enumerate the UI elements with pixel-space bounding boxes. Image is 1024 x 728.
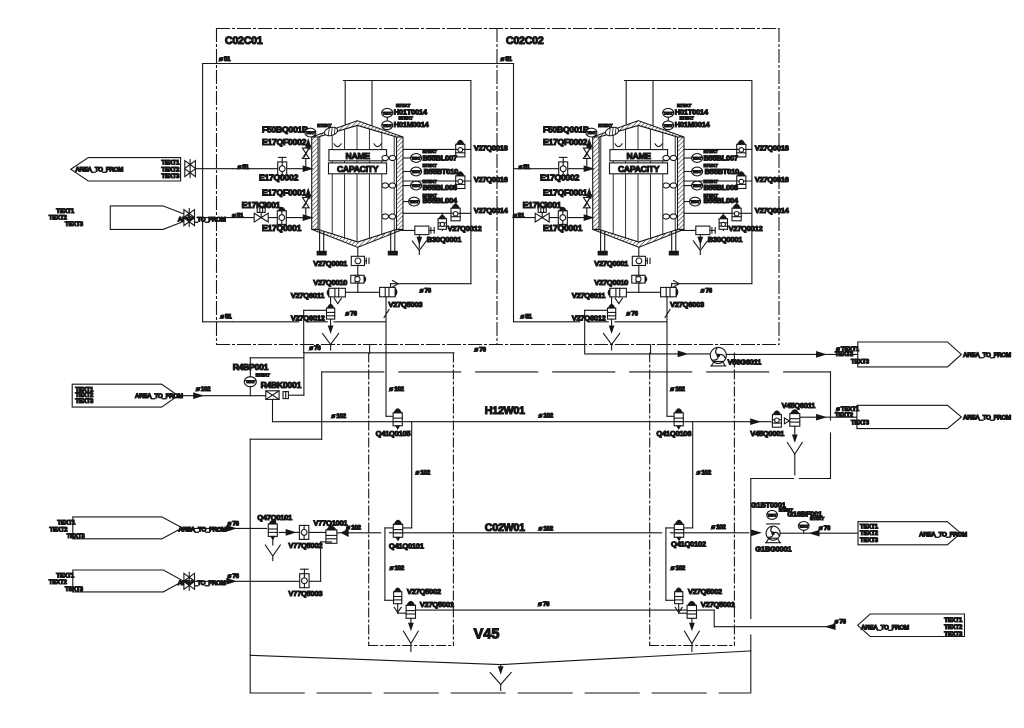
vessel wall flange pairs bbox=[382, 155, 389, 160]
vessel wall flange pairs bbox=[663, 155, 670, 160]
vent return bottom line unit 1 bbox=[391, 283, 471, 285]
vessel shell left wall (hatched) bbox=[593, 137, 599, 229]
wire V77Q5002 to V77Q1001 bbox=[309, 531, 326, 533]
svg-text:ø 51: ø 51 bbox=[513, 212, 525, 219]
wire V45Q0001 inlet arrow bbox=[751, 419, 760, 424]
nozzle line to valve V27Q0014 unit 1 bbox=[403, 212, 471, 214]
valve V27Q0014 unit 2 bbox=[732, 208, 741, 221]
feed riser right (to unit 2) bbox=[513, 64, 515, 322]
instrument H01M0014 unit 2 bbox=[663, 121, 674, 130]
central drain funnel bbox=[500, 665, 502, 672]
boundary drain stub unit 1 bbox=[369, 345, 371, 354]
svg-text:V27Q0012: V27Q0012 bbox=[729, 224, 763, 233]
svg-text:ø 102: ø 102 bbox=[539, 526, 554, 533]
wire Q47Q0101 to V77Q5002 bbox=[279, 531, 299, 533]
svg-text:TEXT3: TEXT3 bbox=[65, 586, 84, 593]
svg-text:CAPACITY: CAPACITY bbox=[337, 164, 379, 174]
instrument stem top of vessel unit 1 bbox=[386, 117, 388, 130]
svg-text:V45Q0001: V45Q0001 bbox=[750, 429, 785, 438]
valve V27Q5001 unit 2 bbox=[687, 605, 696, 618]
svg-text:ø 102: ø 102 bbox=[697, 470, 712, 477]
dn51 blowdown line unit 2 bbox=[514, 321, 580, 323]
gate valve E17K3001 unit 2 bbox=[535, 213, 542, 222]
unit1 blowdown collection line bbox=[304, 352, 454, 354]
svg-text:TEXT: TEXT bbox=[410, 200, 420, 204]
elbow into Q41 valve unit 1 bbox=[386, 415, 393, 417]
svg-text:V27Q5003: V27Q5003 bbox=[388, 300, 422, 309]
vessel shell right wall (hatched) bbox=[678, 137, 685, 229]
svg-text:V45: V45 bbox=[474, 627, 500, 643]
instrument H01M0014 unit 1 bbox=[382, 121, 393, 130]
svg-text:TEXT: TEXT bbox=[664, 124, 674, 128]
V27Q5001 drain funnel unit 1 bbox=[410, 618, 412, 624]
svg-text:ø 76: ø 76 bbox=[701, 288, 713, 295]
H12W01 header bbox=[273, 421, 772, 423]
drain line to B30Q0001 unit 1 bbox=[399, 229, 415, 231]
jacket return bottom jog bbox=[751, 478, 794, 480]
svg-text:TEXT2: TEXT2 bbox=[49, 526, 68, 533]
svg-text:C02C01: C02C01 bbox=[225, 35, 263, 47]
svg-text:E17Q0002: E17Q0002 bbox=[259, 173, 299, 183]
valve V27Q5003 unit 2 bbox=[661, 287, 677, 296]
down branch to C02W01 unit 1 bbox=[411, 422, 413, 528]
svg-text:ø 102: ø 102 bbox=[390, 565, 405, 572]
svg-text:F50BQ001B: F50BQ001B bbox=[262, 124, 308, 134]
svg-text:TEXT2: TEXT2 bbox=[835, 351, 854, 358]
unit1 blowdown stub bbox=[203, 321, 233, 323]
svg-text:ø 102: ø 102 bbox=[416, 470, 431, 477]
C02W01 header mid bbox=[389, 532, 661, 534]
vessel NAME plate bbox=[329, 150, 387, 161]
vessel bottom outlet line unit 1 bbox=[357, 247, 359, 292]
V27Q5003 downline unit 2 bbox=[666, 297, 668, 417]
svg-text:V27Q5001: V27Q5001 bbox=[420, 600, 455, 609]
svg-text:ø 102: ø 102 bbox=[670, 386, 685, 393]
vessel bottom cone radial lines bbox=[330, 233, 358, 242]
wire V45 outlet to flag bbox=[800, 416, 857, 418]
valve V45Q0001 bbox=[772, 415, 781, 428]
V27Q5003 riser to vent line unit 1 bbox=[390, 284, 392, 288]
svg-text:V27Q6012: V27Q6012 bbox=[291, 313, 325, 322]
pump G1BG0001 bbox=[766, 526, 780, 540]
svg-text:H01M0014: H01M0014 bbox=[675, 120, 711, 129]
svg-text:B55BL004: B55BL004 bbox=[704, 196, 739, 205]
valve V77Q5002 bbox=[299, 525, 308, 539]
vessel roof radial lines bbox=[320, 125, 358, 136]
svg-text:B30Q0001: B30Q0001 bbox=[427, 235, 462, 244]
valve V27Q0010 unit 2 bbox=[632, 275, 645, 283]
svg-text:TEXT: TEXT bbox=[412, 157, 422, 161]
svg-text:V77Q1001: V77Q1001 bbox=[313, 519, 348, 528]
svg-text:TEXT: TEXT bbox=[768, 513, 778, 517]
valve V27Q5001 unit 1 bbox=[406, 605, 415, 618]
valve V27Q0016 unit 2 bbox=[737, 176, 746, 189]
svg-text:V27Q0014: V27Q0014 bbox=[755, 206, 790, 215]
svg-text:G1BG0001: G1BG0001 bbox=[755, 545, 792, 554]
flag AREA_TO_FROM left (R4B line) bbox=[72, 384, 178, 407]
svg-text:R4BK0001: R4BK0001 bbox=[261, 380, 302, 390]
svg-text:E17Q0001: E17Q0001 bbox=[543, 223, 583, 233]
svg-text:ø 76: ø 76 bbox=[420, 288, 432, 295]
svg-text:AREA_TO_FROM: AREA_TO_FROM bbox=[178, 527, 226, 534]
svg-text:ø 51: ø 51 bbox=[220, 313, 232, 320]
svg-text:AREA_TO_FROM: AREA_TO_FROM bbox=[963, 352, 1011, 359]
svg-text:V77Q5002: V77Q5002 bbox=[288, 541, 322, 550]
V27Q6012 bypass branch unit 2 bbox=[585, 309, 608, 311]
svg-text:TEXT: TEXT bbox=[587, 131, 597, 135]
bottom dashed boundary bbox=[250, 692, 749, 694]
svg-text:V27Q6011: V27Q6011 bbox=[291, 291, 326, 300]
svg-text:E17Q0001: E17Q0001 bbox=[262, 223, 302, 233]
valve V27Q0001 unit 1 bbox=[351, 256, 364, 265]
instrument stubs B55 unit 2 bbox=[684, 157, 692, 159]
wire pump to flag E bbox=[726, 353, 858, 355]
vessel internal filter candles bbox=[600, 136, 602, 229]
svg-text:TEXT: TEXT bbox=[664, 111, 674, 115]
vessel shell left wall (hatched) bbox=[312, 137, 318, 229]
svg-text:AREA_TO_FROM: AREA_TO_FROM bbox=[75, 167, 123, 174]
svg-text:E17K3001: E17K3001 bbox=[242, 200, 281, 210]
flag AREA_TO_FROM right (C02W01 return) bbox=[858, 522, 961, 545]
svg-text:B55BL008: B55BL008 bbox=[423, 183, 457, 192]
svg-text:TEXT: TEXT bbox=[306, 131, 316, 135]
vent header pipes from vessel top unit 2 bbox=[625, 81, 627, 126]
svg-text:Q47Q0101: Q47Q0101 bbox=[257, 513, 293, 522]
vessel spray nozzle hooks bbox=[334, 144, 341, 147]
valve V27Q6012 unit 1 bbox=[330, 297, 332, 306]
funnel under B30Q0001 unit 1 bbox=[418, 235, 420, 248]
valve V45Q6011 bbox=[790, 414, 800, 427]
svg-text:V27Q5002: V27Q5002 bbox=[688, 587, 722, 596]
svg-text:V56G6011: V56G6011 bbox=[728, 358, 763, 367]
svg-text:F50BQ001B: F50BQ001B bbox=[543, 124, 589, 134]
svg-text:B55BL008: B55BL008 bbox=[704, 183, 738, 192]
vessel spray nozzle hooks bbox=[615, 144, 622, 147]
svg-text:TEXT: TEXT bbox=[383, 111, 393, 115]
vessel bottom cone radial lines bbox=[611, 233, 639, 242]
valve Q47Q0101 bbox=[268, 524, 277, 536]
interconnect line between V27Q5001 valves bbox=[416, 609, 687, 611]
svg-text:C02W01: C02W01 bbox=[485, 522, 525, 534]
gate valve E17K3001 unit 1 bbox=[254, 213, 261, 222]
wire pump outlet to flag H bbox=[780, 532, 858, 534]
unit 1 feed line 1 (DN51) bbox=[233, 168, 312, 170]
valve Q41Q0102 unit 2 bbox=[674, 524, 683, 537]
wire flag to V77Q5003 bbox=[195, 580, 300, 582]
svg-text:ø 102: ø 102 bbox=[539, 413, 554, 420]
svg-text:E17QF0001: E17QF0001 bbox=[262, 187, 307, 197]
feed riser left bbox=[202, 64, 204, 322]
pump feed drain line unit2 bbox=[585, 353, 711, 355]
svg-text:V27Q6003: V27Q6003 bbox=[670, 300, 704, 309]
svg-text:AREA_TO_FROM: AREA_TO_FROM bbox=[861, 624, 909, 631]
svg-text:ø 51: ø 51 bbox=[238, 164, 250, 171]
R4BP001 recirculation loop bbox=[249, 358, 251, 377]
funnel under Q47Q0101 bbox=[272, 536, 274, 545]
svg-text:H12W01: H12W01 bbox=[485, 405, 525, 417]
drain line to B30Q0001 unit 2 bbox=[680, 229, 696, 231]
svg-text:ø 51: ø 51 bbox=[232, 212, 244, 219]
svg-text:ø 76: ø 76 bbox=[228, 520, 240, 527]
nozzle line to valve V27Q0018 unit 2 bbox=[684, 148, 752, 150]
svg-text:Q41Q0101: Q41Q0101 bbox=[389, 542, 425, 551]
svg-text:E17Q0002: E17Q0002 bbox=[540, 173, 580, 183]
valve V77Q5003 bbox=[300, 574, 309, 588]
unit1 feed stub 1 bbox=[195, 168, 232, 170]
svg-text:ø 76: ø 76 bbox=[345, 311, 357, 318]
vent header pipes from vessel top unit 1 bbox=[344, 81, 346, 126]
svg-text:ø 102: ø 102 bbox=[671, 565, 686, 572]
valve V27Q0001 unit 2 bbox=[632, 256, 645, 265]
svg-text:TEXT: TEXT bbox=[693, 157, 703, 161]
svg-text:B55BT010: B55BT010 bbox=[705, 167, 739, 176]
svg-text:H01M0014: H01M0014 bbox=[394, 120, 430, 129]
flag AREA_TO_FROM top-left (incoming feed 1) bbox=[71, 158, 181, 181]
instrument B55BL004 unit 1 bbox=[409, 197, 420, 206]
vessel roof band (hatched) bbox=[312, 121, 403, 137]
pump G1BG0001 inlet arrow bbox=[752, 530, 761, 535]
V27Q5003 downline unit 1 bbox=[385, 297, 387, 417]
arrow between V45 valves bbox=[784, 418, 789, 424]
funnel under B30Q0001 unit 2 bbox=[699, 235, 701, 248]
heater coil symbol unit 2 bbox=[604, 126, 619, 137]
vessel roof radial lines bbox=[601, 125, 639, 136]
pump V56G6011 bbox=[710, 347, 726, 363]
valve V27Q0012 branch unit 1 bbox=[441, 213, 443, 230]
svg-text:ETEXT: ETEXT bbox=[598, 123, 612, 128]
wire R4B feed line bbox=[178, 395, 266, 397]
V27Q5003 riser to vent line unit 2 bbox=[671, 284, 673, 288]
svg-text:V27Q0014: V27Q0014 bbox=[474, 206, 509, 215]
vessel legs bbox=[319, 231, 321, 252]
relief valve E17QF0001 unit 2 bbox=[586, 208, 588, 217]
wire flag to Q47Q0101 bbox=[182, 527, 266, 529]
vessel CAPACITY plate bbox=[610, 163, 668, 174]
svg-text:CAPACITY: CAPACITY bbox=[618, 164, 660, 174]
bottom tee line unit 2 bbox=[626, 291, 660, 293]
feed crossover header top bbox=[203, 63, 514, 65]
nozzle line to valve V27Q0018 unit 1 bbox=[403, 148, 471, 150]
flag AREA_TO_FROM bottom-left 2 (V77 line) bbox=[73, 570, 183, 592]
flag AREA_TO_FROM bottom-right bbox=[858, 614, 965, 637]
wire to bottom-right flag bbox=[714, 626, 826, 628]
vent header line unit 1 bbox=[344, 80, 471, 82]
down branch to C02W01 unit 2 bbox=[692, 422, 694, 528]
svg-text:ETEXT: ETEXT bbox=[810, 516, 824, 521]
svg-text:ø 76: ø 76 bbox=[538, 601, 550, 608]
svg-text:ø 51: ø 51 bbox=[501, 56, 513, 63]
jacket return right drop bbox=[830, 372, 832, 420]
svg-text:TEXT2: TEXT2 bbox=[944, 624, 963, 631]
control valve E17Q0002 unit 1 bbox=[278, 162, 287, 176]
svg-text:V27Q0016: V27Q0016 bbox=[474, 175, 508, 184]
svg-text:NAME: NAME bbox=[346, 151, 371, 161]
instrument H01T0014 unit 1 bbox=[382, 108, 393, 117]
heater coil symbol unit 1 bbox=[323, 126, 338, 137]
svg-text:TEXT: TEXT bbox=[412, 184, 422, 188]
svg-text:Q41Q0106: Q41Q0106 bbox=[656, 429, 691, 438]
vessel shell right wall (hatched) bbox=[397, 137, 404, 229]
valve V27Q0014 unit 1 bbox=[451, 208, 460, 221]
instrument B55BL004 unit 2 bbox=[690, 197, 701, 206]
svg-text:V27Q0018: V27Q0018 bbox=[474, 144, 508, 153]
valve V77Q1001 bbox=[326, 530, 337, 543]
svg-text:TEXT: TEXT bbox=[693, 184, 703, 188]
V27Q6012 bypass branch unit 1 bbox=[304, 309, 327, 311]
equipment B30Q0001 unit 2 bbox=[696, 226, 710, 235]
control valve E17Q0001 unit 1 bbox=[277, 211, 286, 225]
svg-text:B55BT010: B55BT010 bbox=[424, 167, 458, 176]
dn51 blowdown line unit 1 bbox=[233, 321, 299, 323]
instrument stubs B55 unit 1 bbox=[403, 157, 411, 159]
svg-text:TEXT3: TEXT3 bbox=[161, 173, 180, 180]
V27Q6012 drain arrow and funnel unit 2 bbox=[611, 319, 613, 327]
svg-text:TEXT: TEXT bbox=[693, 170, 703, 174]
svg-text:V77Q5003: V77Q5003 bbox=[288, 589, 322, 598]
svg-text:ø 102: ø 102 bbox=[346, 524, 361, 531]
svg-text:V27Q0001: V27Q0001 bbox=[313, 259, 348, 268]
svg-text:ø 76: ø 76 bbox=[228, 573, 240, 580]
svg-text:TEXT3: TEXT3 bbox=[851, 359, 870, 366]
nozzle line to valve V27Q0016 unit 1 bbox=[403, 180, 471, 182]
svg-text:E17K3001: E17K3001 bbox=[523, 200, 562, 210]
wire right V27Q5001 outlet bbox=[697, 609, 715, 611]
svg-text:B55BL004: B55BL004 bbox=[423, 196, 458, 205]
elbow to V27Q5001 unit 1 bbox=[397, 604, 399, 614]
svg-text:TEXT: TEXT bbox=[383, 124, 393, 128]
svg-text:TEXT3: TEXT3 bbox=[860, 537, 879, 544]
svg-text:AREA_TO_FROM: AREA_TO_FROM bbox=[135, 393, 183, 400]
svg-text:ø 102: ø 102 bbox=[389, 386, 404, 393]
svg-text:V27Q6011: V27Q6011 bbox=[572, 291, 607, 300]
flag AREA_TO_FROM mid-left (incoming feed 2) bbox=[110, 206, 193, 230]
left standpipe down to trough bbox=[249, 439, 251, 655]
svg-text:TEXT: TEXT bbox=[691, 200, 701, 204]
svg-text:V27Q0010: V27Q0010 bbox=[594, 278, 628, 287]
vessel internal filter candles bbox=[319, 136, 321, 229]
svg-text:C02C02: C02C02 bbox=[506, 35, 544, 47]
twin check valve after flag feed 2 bbox=[184, 210, 189, 218]
svg-text:TEXT3: TEXT3 bbox=[75, 398, 94, 405]
svg-text:TEXT: TEXT bbox=[412, 170, 422, 174]
svg-text:TEXT3: TEXT3 bbox=[851, 420, 870, 427]
svg-text:AREA_TO_FROM: AREA_TO_FROM bbox=[963, 414, 1011, 421]
svg-text:Q41Q0105: Q41Q0105 bbox=[376, 429, 412, 438]
svg-text:ø 76: ø 76 bbox=[626, 311, 638, 318]
jacket return left drop bbox=[321, 372, 323, 439]
wire C02W01 left end bbox=[337, 532, 381, 534]
valve V27Q0010 unit 1 bbox=[351, 275, 364, 283]
instrument B55BT010 unit 1 bbox=[411, 167, 422, 176]
svg-text:E17QF0002: E17QF0002 bbox=[543, 137, 588, 147]
flag AREA_TO_FROM right (H12W01 return) bbox=[857, 405, 962, 428]
instrument B55BL008 unit 2 bbox=[692, 181, 703, 190]
svg-text:NAME: NAME bbox=[627, 151, 652, 161]
wire R4BK down to H12W01 header bbox=[272, 399, 274, 421]
boundary drain stub unit 2 bbox=[650, 345, 652, 354]
svg-text:TEXT3: TEXT3 bbox=[67, 533, 86, 540]
svg-text:V27Q5002: V27Q5002 bbox=[407, 587, 441, 596]
vessel NAME plate bbox=[610, 150, 668, 161]
vent header right downcomer unit 1 bbox=[470, 81, 472, 284]
svg-text:ø 102: ø 102 bbox=[196, 386, 211, 393]
dash-dot plant boundary box C02C02 bbox=[778, 29, 780, 345]
V27Q6012 drain arrow and funnel unit 1 bbox=[330, 319, 332, 327]
vessel bottom cone band (hatched) bbox=[593, 229, 684, 247]
relief valve E17QF0001 unit 1 bbox=[305, 208, 307, 217]
valve V27Q5002 unit 2 bbox=[675, 592, 683, 604]
svg-text:V27Q0016: V27Q0016 bbox=[755, 175, 789, 184]
svg-text:ø 102: ø 102 bbox=[711, 524, 726, 531]
svg-text:TEXT: TEXT bbox=[799, 524, 809, 528]
valve Q41Q0106 unit 2 bbox=[674, 413, 683, 426]
unit 1 feed line 2 (DN51) bbox=[233, 217, 312, 219]
twin check valve after flag feed 1 bbox=[185, 161, 190, 169]
bottom tee line unit 1 bbox=[345, 291, 379, 293]
instrument B55BL008 unit 1 bbox=[411, 181, 422, 190]
svg-text:ø 51: ø 51 bbox=[519, 164, 531, 171]
svg-text:ø 76: ø 76 bbox=[835, 618, 847, 625]
svg-text:TEXT3: TEXT3 bbox=[65, 221, 84, 228]
svg-text:TEXT3: TEXT3 bbox=[944, 631, 963, 638]
svg-text:ø 76: ø 76 bbox=[309, 345, 321, 352]
C02W01 header right bbox=[670, 532, 748, 534]
unit 2 feed line 1 (DN51) bbox=[514, 168, 593, 170]
svg-text:V27Q0001: V27Q0001 bbox=[594, 259, 629, 268]
equipment B30Q0001 unit 1 bbox=[415, 226, 429, 235]
svg-text:Q41Q0102: Q41Q0102 bbox=[671, 539, 706, 548]
svg-text:ETEXT: ETEXT bbox=[256, 372, 270, 377]
instrument H01T0014 unit 2 bbox=[663, 108, 674, 117]
svg-text:TEXT2: TEXT2 bbox=[835, 412, 854, 419]
valve V27Q0012 branch unit 2 bbox=[722, 213, 724, 230]
elbow to V27Q5001 unit 2 bbox=[678, 604, 680, 614]
vessel CAPACITY plate bbox=[329, 163, 387, 174]
control valve E17Q0001 unit 2 bbox=[558, 211, 567, 225]
svg-text:TEXT1: TEXT1 bbox=[161, 159, 180, 166]
vessel roof band (hatched) bbox=[593, 121, 684, 137]
relief valve E17QF0002 unit 1 bbox=[305, 159, 307, 169]
svg-text:TEXT: TEXT bbox=[246, 380, 256, 384]
valve V27Q6011 unit 1 bbox=[329, 288, 346, 297]
valve V27Q5002 unit 1 bbox=[394, 592, 402, 604]
vent return bottom line unit 2 bbox=[672, 283, 752, 285]
right standpipe down to trough bbox=[750, 479, 752, 619]
svg-text:B55BL007: B55BL007 bbox=[423, 153, 457, 162]
twin check valve on V77 flag bbox=[184, 573, 189, 581]
instrument B55BL007 unit 2 bbox=[692, 154, 703, 163]
V27Q5001 drain funnel unit 2 bbox=[691, 618, 693, 624]
collection trough bbox=[250, 651, 751, 665]
svg-text:ø 102: ø 102 bbox=[331, 413, 346, 420]
svg-text:ø 51: ø 51 bbox=[521, 313, 533, 320]
flag AREA_TO_FROM bottom-left (C02W01 supply) bbox=[73, 517, 182, 539]
instrument stem top of vessel unit 2 bbox=[667, 117, 669, 130]
svg-text:ETEXT: ETEXT bbox=[317, 123, 331, 128]
vessel bottom outlet line unit 2 bbox=[638, 247, 640, 292]
flag AREA_TO_FROM top-right bbox=[858, 342, 962, 367]
jacket return long-dash line bbox=[322, 371, 831, 373]
svg-text:E17QF0001: E17QF0001 bbox=[543, 187, 588, 197]
wire V77Q5003 riser to V77Q1001 bbox=[309, 580, 321, 582]
unit 2 feed line 2 (DN51) bbox=[514, 217, 593, 219]
valve V27Q5003 unit 1 bbox=[380, 287, 396, 296]
svg-text:ø 76: ø 76 bbox=[474, 347, 486, 354]
vent header right downcomer unit 2 bbox=[751, 81, 753, 284]
vent header line unit 2 bbox=[625, 80, 752, 82]
svg-text:ø 76: ø 76 bbox=[819, 525, 831, 532]
svg-text:ø 51: ø 51 bbox=[219, 56, 231, 63]
